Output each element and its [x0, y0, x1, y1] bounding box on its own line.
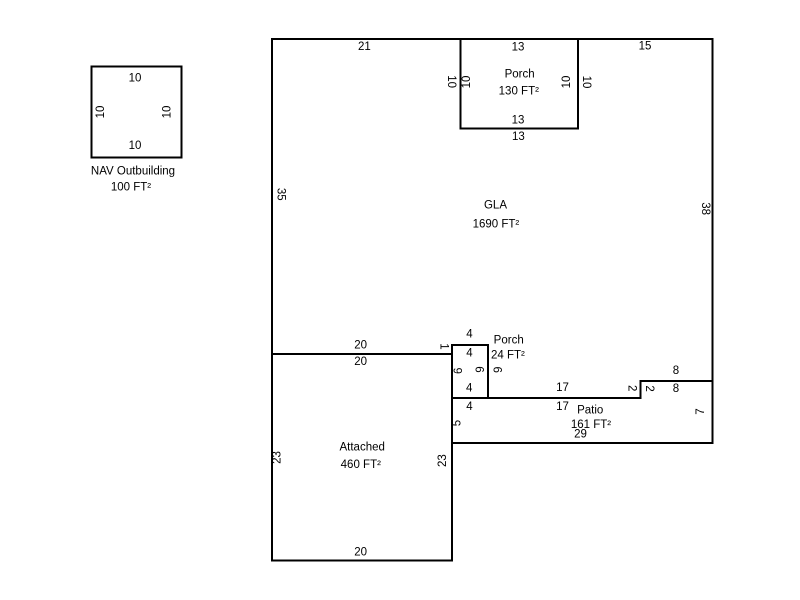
svg-text:130 FT²: 130 FT² [499, 85, 539, 97]
svg-text:1690 FT²: 1690 FT² [473, 219, 520, 231]
svg-text:4: 4 [466, 348, 473, 360]
svg-text:4: 4 [466, 382, 473, 394]
svg-text:2: 2 [643, 385, 655, 391]
svg-text:4: 4 [466, 401, 473, 413]
svg-text:4: 4 [466, 329, 473, 341]
svg-text:NAV Outbuilding: NAV Outbuilding [91, 166, 175, 178]
svg-text:Attached: Attached [339, 441, 384, 453]
svg-text:Porch: Porch [505, 68, 535, 80]
svg-text:13: 13 [512, 114, 525, 126]
svg-text:10: 10 [461, 76, 473, 89]
svg-text:21: 21 [358, 41, 371, 53]
svg-text:20: 20 [354, 547, 367, 559]
svg-text:24 FT²: 24 FT² [491, 349, 525, 361]
svg-text:5: 5 [452, 420, 464, 426]
svg-text:Porch: Porch [494, 334, 524, 346]
svg-text:35: 35 [274, 188, 286, 201]
svg-text:8: 8 [673, 365, 679, 377]
svg-text:10: 10 [162, 106, 174, 119]
svg-text:Patio: Patio [577, 405, 603, 417]
svg-text:13: 13 [512, 41, 525, 53]
svg-text:17: 17 [556, 401, 569, 413]
svg-text:GLA: GLA [484, 200, 507, 212]
attached garage outline [272, 354, 452, 561]
svg-text:1: 1 [437, 343, 449, 349]
svg-text:10: 10 [129, 140, 142, 152]
svg-text:7: 7 [695, 408, 707, 414]
svg-text:100 FT²: 100 FT² [111, 182, 151, 194]
svg-text:10: 10 [445, 75, 457, 88]
svg-text:10: 10 [561, 76, 573, 89]
svg-text:2: 2 [625, 385, 637, 391]
small porch outline [452, 345, 488, 398]
svg-text:6: 6 [473, 366, 485, 372]
svg-text:23: 23 [272, 451, 284, 464]
svg-text:17: 17 [556, 382, 569, 394]
svg-text:8: 8 [673, 383, 679, 395]
svg-text:15: 15 [639, 41, 652, 53]
svg-text:23: 23 [437, 454, 449, 467]
svg-text:460 FT²: 460 FT² [341, 459, 381, 471]
svg-text:29: 29 [574, 429, 587, 441]
svg-text:10: 10 [95, 106, 107, 119]
patio outline [452, 381, 713, 443]
svg-text:13: 13 [512, 131, 525, 143]
svg-text:38: 38 [699, 202, 711, 215]
GLA outline [272, 39, 713, 398]
svg-text:20: 20 [354, 340, 367, 352]
NAV outbuilding outline [92, 67, 182, 158]
svg-text:6: 6 [490, 366, 502, 372]
svg-text:10: 10 [129, 73, 142, 85]
svg-text:20: 20 [354, 356, 367, 368]
svg-text:10: 10 [580, 76, 592, 89]
porch (top) outline [461, 39, 579, 129]
svg-text:6: 6 [453, 368, 465, 374]
